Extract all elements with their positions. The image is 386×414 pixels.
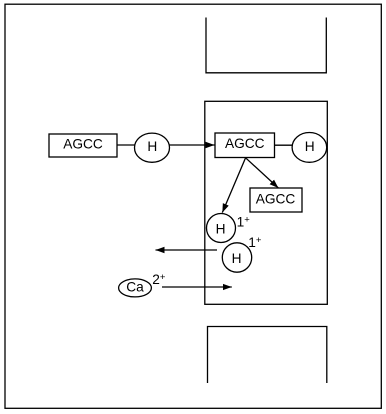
arrow: dissociation to AGCC box: [246, 158, 279, 188]
box AGCC luminal: [49, 134, 117, 157]
arrow: H+ exported to lumen (left): [156, 249, 218, 251]
wire: intracellular AGCC box to H ellipse: [275, 144, 293, 146]
lower cell membrane (open-bottom U): [208, 327, 327, 384]
svg-text:AGCC: AGCC: [63, 137, 103, 152]
arrow: H+AGCC entering cell: [170, 144, 215, 146]
box AGCC intracellular: [215, 133, 275, 158]
arrow: Ca2+ entering cell (right): [162, 286, 232, 288]
upper cell membrane (open-top U): [206, 18, 326, 73]
arrow: dissociation to H1+ circle: [222, 158, 245, 213]
svg-text:AGCC: AGCC: [256, 191, 296, 206]
box AGCC dissociated: [250, 188, 302, 212]
ion H ellipse luminal: [135, 133, 170, 162]
ion Ca 2+ ellipse: [119, 272, 166, 297]
ion H ellipse intracellular right: [292, 133, 327, 163]
wire: AGCC box to H ellipse: [117, 144, 135, 146]
svg-text:Ca: Ca: [126, 279, 144, 294]
svg-text:AGCC: AGCC: [225, 136, 265, 151]
ion H 1+ circle upper: [207, 214, 251, 243]
svg-text:H: H: [216, 221, 226, 236]
svg-text:H: H: [147, 139, 157, 154]
colonocyte cell body rectangle: [205, 101, 327, 304]
ion H 1+ circle lower: [222, 235, 262, 272]
svg-text:H: H: [305, 139, 315, 154]
svg-text:H: H: [232, 251, 242, 266]
